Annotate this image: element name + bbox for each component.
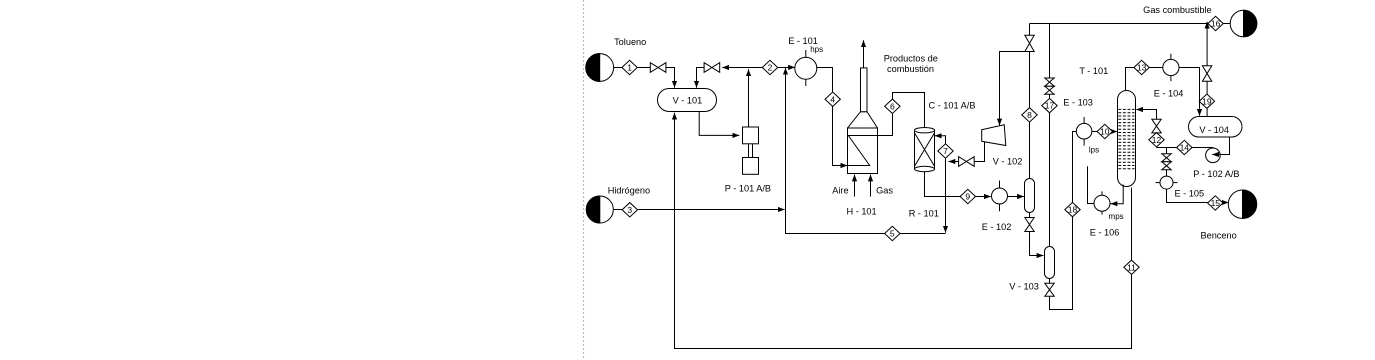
svg-text:V - 102: V - 102 [993, 156, 1023, 166]
svg-text:7: 7 [943, 146, 948, 156]
svg-text:mps: mps [1109, 212, 1124, 221]
svg-text:1: 1 [627, 63, 632, 73]
svg-text:V - 103: V - 103 [1009, 281, 1039, 291]
svg-text:combustión: combustión [887, 64, 934, 74]
svg-text:14: 14 [1180, 143, 1190, 153]
svg-text:Gas combustible: Gas combustible [1143, 5, 1211, 15]
svg-text:E - 103: E - 103 [1063, 98, 1093, 108]
svg-text:6: 6 [890, 101, 895, 111]
svg-text:E - 104: E - 104 [1154, 89, 1184, 99]
svg-text:lps: lps [1089, 145, 1099, 154]
svg-text:P - 102 A/B: P - 102 A/B [1193, 169, 1239, 179]
svg-text:13: 13 [1137, 63, 1147, 73]
svg-text:Productos de: Productos de [884, 54, 938, 64]
svg-text:3: 3 [627, 205, 632, 215]
svg-text:Aire: Aire [832, 186, 848, 196]
svg-text:V - 101: V - 101 [673, 95, 703, 105]
svg-text:T - 101: T - 101 [1079, 66, 1108, 76]
svg-text:Tolueno: Tolueno [614, 37, 646, 47]
svg-text:16: 16 [1211, 19, 1221, 29]
svg-text:4: 4 [830, 94, 835, 104]
svg-text:15: 15 [1211, 198, 1221, 208]
svg-text:9: 9 [965, 192, 970, 202]
svg-text:E - 106: E - 106 [1090, 227, 1120, 237]
svg-text:Hidrógeno: Hidrógeno [608, 186, 650, 196]
svg-text:Gas: Gas [876, 186, 893, 196]
svg-text:E - 105: E - 105 [1174, 189, 1204, 199]
svg-text:C - 101 A/B: C - 101 A/B [929, 101, 976, 111]
svg-text:5: 5 [890, 229, 895, 239]
svg-text:19: 19 [1202, 96, 1212, 106]
svg-text:2: 2 [768, 63, 773, 73]
svg-text:17: 17 [1045, 101, 1055, 111]
svg-text:P - 101 A/B: P - 101 A/B [725, 184, 771, 194]
svg-text:V - 104: V - 104 [1199, 125, 1229, 135]
svg-text:H - 101: H - 101 [847, 206, 877, 216]
svg-text:10: 10 [1100, 127, 1110, 137]
svg-text:E - 102: E - 102 [982, 222, 1012, 232]
svg-text:8: 8 [1027, 110, 1032, 120]
svg-text:R - 101: R - 101 [909, 209, 939, 219]
svg-text:12: 12 [1152, 135, 1162, 145]
svg-text:hps: hps [810, 45, 823, 54]
svg-text:Benceno: Benceno [1200, 231, 1236, 241]
svg-text:18: 18 [1068, 205, 1078, 215]
svg-text:11: 11 [1127, 262, 1136, 272]
